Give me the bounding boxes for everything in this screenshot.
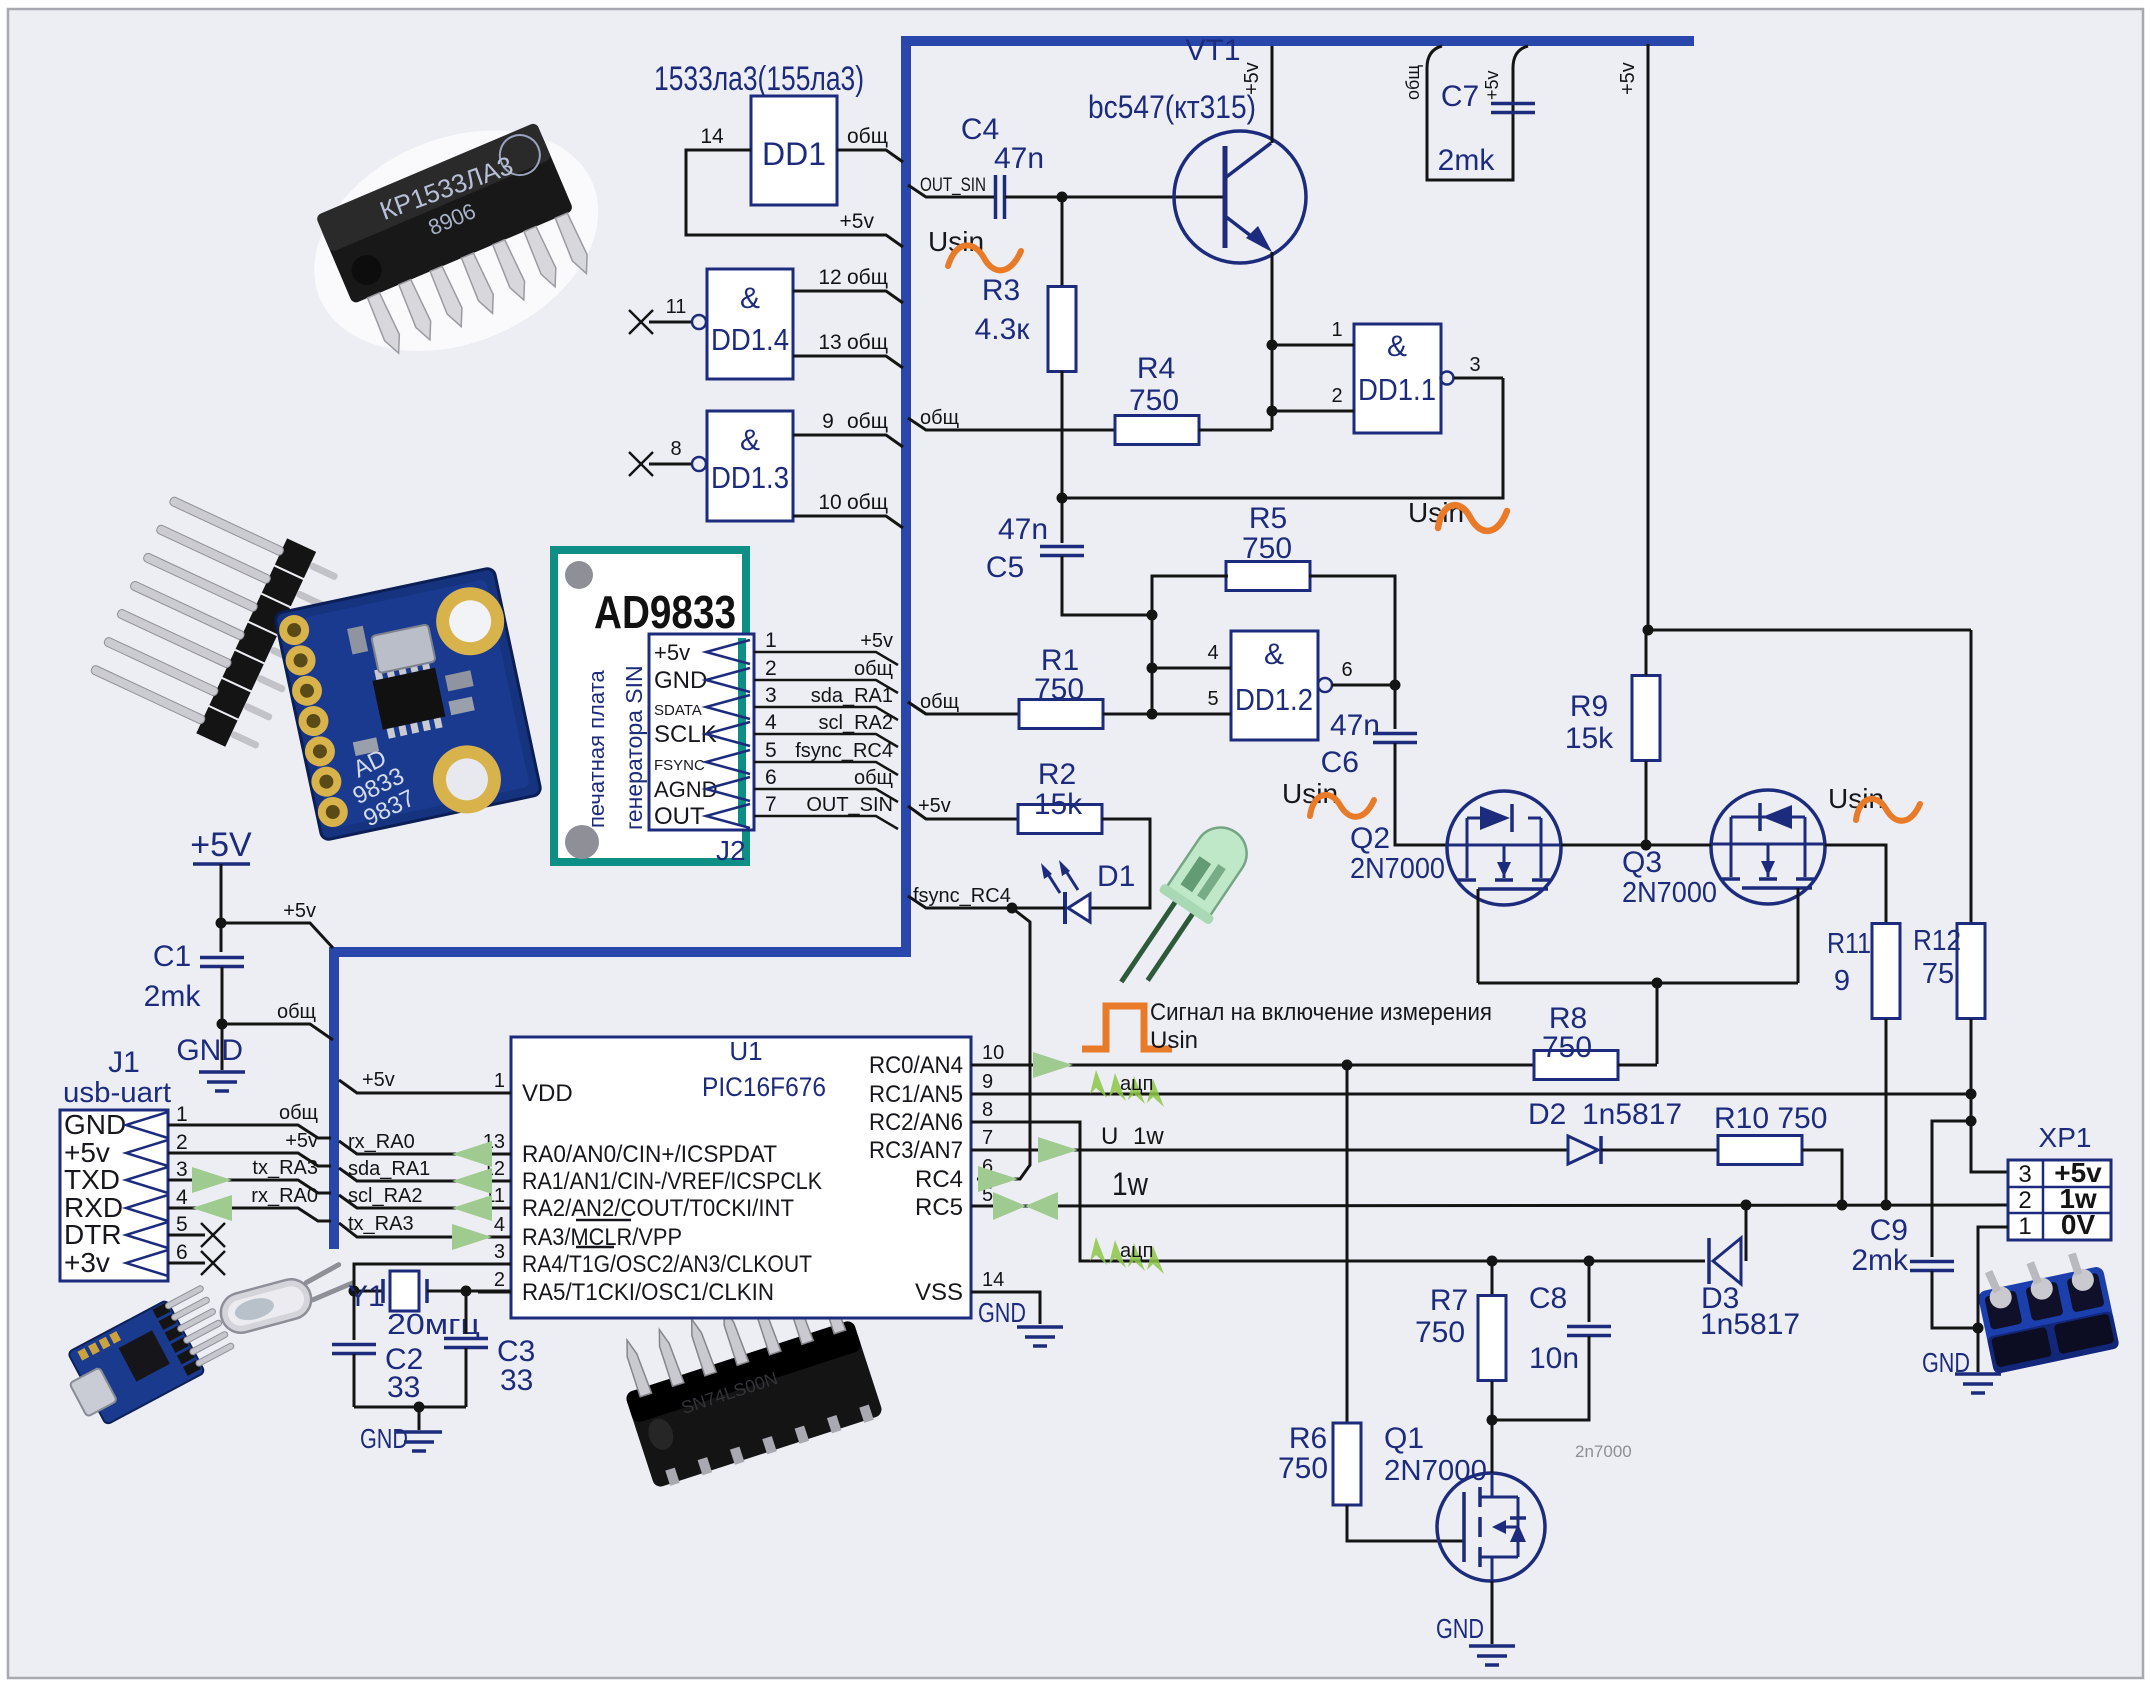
- svg-text:D2: D2: [1528, 1098, 1566, 1131]
- photo screw terminal block: [1973, 1247, 2120, 1374]
- wire R6 to Q1 gate: [1347, 1505, 1464, 1541]
- svg-text:3: 3: [1469, 354, 1480, 376]
- svg-text:FSYNC: FSYNC: [654, 757, 705, 774]
- svg-text:3: 3: [2018, 1161, 2031, 1188]
- logic IC DD1: [751, 96, 837, 205]
- LED D1: [1063, 892, 1067, 924]
- AD9833 board outline: [554, 550, 746, 862]
- resistor R8: [1534, 1051, 1618, 1080]
- svg-text:9: 9: [1834, 965, 1850, 997]
- svg-text:R4: R4: [1137, 352, 1175, 385]
- U1 pin 12 RA1: [478, 1180, 511, 1183]
- wire R12 down: [1970, 1019, 1973, 1172]
- resistor R11: [1872, 924, 1900, 1019]
- svg-text:1: 1: [494, 1070, 505, 1092]
- wire DD1.4 pin13: [793, 356, 903, 368]
- svg-text:D1: D1: [1097, 860, 1135, 893]
- svg-text:2: 2: [765, 657, 777, 680]
- svg-text:GND: GND: [360, 1423, 408, 1454]
- svg-text:75: 75: [1922, 958, 1954, 990]
- svg-text:Usin: Usin: [1150, 1027, 1198, 1054]
- svg-text:2: 2: [1331, 385, 1342, 407]
- svg-text:C6: C6: [1321, 746, 1359, 779]
- svg-text:1n5817: 1n5817: [1582, 1098, 1682, 1131]
- svg-text:PIC16F676: PIC16F676: [702, 1072, 826, 1102]
- wire DD1.1 pin3 output: [1441, 372, 1454, 385]
- capacitor C2: [353, 1291, 356, 1340]
- svg-text:3: 3: [494, 1241, 505, 1263]
- svg-text:13: 13: [818, 331, 841, 354]
- svg-text:AD9833: AD9833: [594, 586, 736, 638]
- resistor R1: [908, 702, 926, 714]
- capacitor C8: [1588, 1261, 1591, 1322]
- svg-text:5: 5: [176, 1213, 188, 1236]
- wire +5v to VDD: [339, 1080, 511, 1093]
- svg-text:7: 7: [982, 1127, 993, 1149]
- diode D2: [1568, 1136, 1598, 1164]
- svg-text:общ: общ: [847, 491, 888, 514]
- wire J1 pin1 obsh: [168, 1125, 331, 1138]
- wire Q3 to R11: [1825, 845, 1886, 924]
- svg-text:общ: общ: [920, 691, 959, 713]
- svg-text:1: 1: [1331, 319, 1342, 341]
- svg-text:+5v: +5v: [362, 1069, 395, 1091]
- svg-text:5: 5: [765, 739, 777, 762]
- svg-text:750: 750: [1415, 1316, 1465, 1349]
- svg-text:общ: общ: [847, 410, 888, 433]
- wire J1 pin6 nc: [168, 1262, 205, 1265]
- svg-text:VSS: VSS: [915, 1279, 963, 1306]
- svg-text:rx_RA0: rx_RA0: [348, 1131, 415, 1153]
- svg-text:RC0/AN4: RC0/AN4: [869, 1052, 963, 1079]
- wire VT1 collector +5v: [1271, 46, 1274, 143]
- photo HC-49 crystal: [215, 1259, 360, 1337]
- svg-text:R7: R7: [1430, 1284, 1468, 1317]
- svg-text:OUT: OUT: [654, 803, 705, 830]
- svg-text:1w: 1w: [1112, 1166, 1149, 1202]
- svg-text:XP1: XP1: [2039, 1122, 2092, 1153]
- svg-text:GND: GND: [1436, 1613, 1484, 1644]
- svg-text:R2: R2: [1038, 758, 1076, 791]
- wire C4 to VT1 base: [1005, 196, 1223, 199]
- wire RC2 pin8 net: [971, 1122, 1705, 1261]
- capacitor C4: [994, 175, 998, 219]
- wire obsh to R4: [908, 418, 1116, 430]
- transistor Q2 2N7000: [1447, 791, 1561, 905]
- wire +5v rail right: [1647, 44, 1650, 630]
- svg-text:14: 14: [982, 1269, 1004, 1291]
- svg-text:4: 4: [494, 1214, 505, 1236]
- svg-text:R3: R3: [982, 274, 1020, 307]
- photo AD9833 module: [274, 567, 542, 844]
- svg-text:общ: общ: [847, 331, 888, 354]
- wire DD1.2 pin4: [1152, 667, 1231, 670]
- svg-text:33: 33: [500, 1364, 533, 1397]
- svg-text:SDATA: SDATA: [654, 702, 702, 719]
- svg-text:VDD: VDD: [522, 1080, 573, 1107]
- wire Usin feedback: [1062, 378, 1503, 498]
- no-connect pin 11: [629, 310, 653, 334]
- svg-text:R11: R11: [1827, 928, 1871, 960]
- logic gate DD1.1: [1354, 324, 1441, 433]
- photo DIP chip bottom view: [609, 1272, 884, 1491]
- svg-text:R6: R6: [1289, 1422, 1327, 1455]
- wire C6 to Q2: [1395, 743, 1448, 845]
- svg-text:OUT_SIN: OUT_SIN: [920, 175, 986, 196]
- svg-text:C9: C9: [1870, 1214, 1908, 1247]
- svg-text:J2: J2: [716, 835, 746, 866]
- capacitor C5: [1040, 545, 1084, 549]
- svg-text:2mk: 2mk: [1851, 1244, 1909, 1277]
- svg-text:+5v: +5v: [1482, 70, 1502, 100]
- svg-text:47n: 47n: [1330, 709, 1380, 742]
- resistor R7: [1491, 1261, 1494, 1296]
- wire RC4 pin6 fsync: [978, 1166, 1018, 1192]
- pulse signal annotation: [1082, 1006, 1172, 1049]
- svg-text:+5V: +5V: [190, 826, 252, 864]
- svg-text:+5v: +5v: [860, 630, 893, 652]
- svg-text:8: 8: [982, 1099, 993, 1121]
- wire gate tie: [1478, 982, 1798, 985]
- transistor Q3 2N7000: [1711, 790, 1825, 904]
- svg-text:общ: общ: [847, 266, 888, 289]
- svg-text:750: 750: [1129, 384, 1179, 417]
- svg-text:0V: 0V: [2061, 1209, 2096, 1240]
- svg-text:DD1.1: DD1.1: [1358, 372, 1436, 407]
- svg-text:R9: R9: [1570, 690, 1608, 723]
- photo green LED: [1104, 815, 1261, 1006]
- wire DD1.1 pin1: [1272, 344, 1354, 347]
- svg-text:R10 750: R10 750: [1714, 1102, 1827, 1135]
- svg-text:GND: GND: [978, 1297, 1026, 1328]
- svg-text:47n: 47n: [998, 513, 1048, 546]
- svg-text:9: 9: [982, 1071, 993, 1093]
- svg-text:+5v: +5v: [918, 795, 951, 817]
- svg-text:15k: 15k: [1565, 722, 1614, 755]
- wire scl_RA2: [339, 1195, 478, 1208]
- svg-text:GND: GND: [176, 1034, 243, 1067]
- resistor R12: [1957, 924, 1985, 1019]
- svg-text:печатная плата: печатная плата: [584, 670, 609, 828]
- svg-text:+5v: +5v: [283, 900, 316, 922]
- resistor R9: [1632, 676, 1660, 761]
- svg-text:общ: общ: [847, 125, 888, 148]
- wire DD1 pin14: [686, 150, 903, 247]
- svg-text:+5v: +5v: [1617, 62, 1639, 95]
- svg-text:общ: общ: [854, 767, 893, 789]
- svg-text:DD1.2: DD1.2: [1235, 682, 1313, 717]
- U1 pin 11 RA2: [478, 1207, 511, 1210]
- svg-text:14: 14: [700, 125, 724, 148]
- logic gate DD1.2: [1231, 631, 1318, 740]
- microcontroller U1 PIC16F676: [511, 1037, 971, 1318]
- svg-text:R5: R5: [1249, 502, 1287, 535]
- svg-text:12: 12: [818, 266, 841, 289]
- svg-text:RC2/AN6: RC2/AN6: [869, 1109, 963, 1136]
- svg-text:7: 7: [765, 793, 777, 816]
- wire DD1.3 pin9: [793, 435, 903, 447]
- gnd crystal: [354, 1406, 466, 1409]
- svg-text:scl_RA2: scl_RA2: [819, 712, 893, 734]
- wire +5v to bus top: [221, 923, 333, 948]
- capacitor C9: [1932, 1121, 1971, 1257]
- svg-text:C5: C5: [986, 551, 1024, 584]
- wire RC3 pin7 U1w net: [971, 1149, 1568, 1152]
- wire rx_RA0: [339, 1141, 478, 1154]
- photo usb-uart module: [56, 1282, 238, 1431]
- svg-text:общ: общ: [920, 407, 959, 429]
- svg-text:10n: 10n: [1529, 1342, 1579, 1375]
- wire OUT_SIN: [908, 185, 995, 197]
- svg-text:+5v: +5v: [285, 1130, 318, 1152]
- svg-text:+5v: +5v: [654, 640, 690, 665]
- svg-text:RA5/T1CKI/OSC1/CLKIN: RA5/T1CKI/OSC1/CLKIN: [522, 1279, 774, 1306]
- wire to R12: [1970, 630, 1973, 926]
- svg-text:C1: C1: [153, 940, 191, 973]
- wire DD1 out obsh: [837, 150, 903, 162]
- U1 pin 4 RA3: [478, 1236, 511, 1239]
- wire J1 pin2 +5v: [168, 1153, 331, 1166]
- svg-text:750: 750: [1034, 673, 1084, 706]
- svg-text:bc547(кт315): bc547(кт315): [1088, 89, 1256, 125]
- svg-text:1: 1: [2018, 1213, 2031, 1240]
- svg-text:750: 750: [1242, 532, 1292, 565]
- svg-text:6: 6: [765, 766, 777, 789]
- wire R2 to D1: [1090, 819, 1150, 908]
- svg-text:4: 4: [176, 1186, 188, 1209]
- svg-text:15k: 15k: [1034, 788, 1083, 821]
- svg-text:общ: общ: [279, 1102, 318, 1124]
- svg-text:TXD: TXD: [64, 1164, 120, 1195]
- crystal Y1: [354, 1290, 383, 1293]
- svg-text:RA4/T1G/OSC2/AN3/CLKOUT: RA4/T1G/OSC2/AN3/CLKOUT: [522, 1251, 812, 1278]
- capacitor C7 branch: [1427, 46, 1513, 180]
- wire to XP1 pin3: [1971, 1121, 2008, 1172]
- svg-text:RA2/AN2/COUT/T0CKI/INT: RA2/AN2/COUT/T0CKI/INT: [522, 1195, 794, 1222]
- net label +5v to R2: [908, 806, 1018, 819]
- green arrow pin12: [452, 1168, 492, 1194]
- svg-text:2: 2: [2018, 1187, 2031, 1214]
- svg-text:4.3к: 4.3к: [975, 313, 1031, 346]
- svg-text:3: 3: [765, 684, 777, 707]
- svg-text:2mk: 2mk: [144, 980, 202, 1013]
- svg-text:RA1/AN1/CIN-/VREF/ICSPCLK: RA1/AN1/CIN-/VREF/ICSPCLK: [522, 1168, 822, 1195]
- svg-text:1w: 1w: [1133, 1123, 1164, 1150]
- resistor R2: [1018, 805, 1102, 834]
- svg-text:DTR: DTR: [64, 1219, 122, 1250]
- wire J1 pin3 TXD: [168, 1180, 331, 1193]
- svg-text:5: 5: [1207, 688, 1218, 710]
- svg-text:RA0/AN0/CIN+/ICSPDAT: RA0/AN0/CIN+/ICSPDAT: [522, 1141, 777, 1168]
- svg-text:2N7000: 2N7000: [1350, 853, 1445, 885]
- wire Q1 source to GND: [1491, 1581, 1494, 1644]
- svg-text:C8: C8: [1529, 1282, 1567, 1315]
- wire J1 pin4 RXD: [168, 1208, 331, 1221]
- svg-text:+5v: +5v: [840, 210, 875, 233]
- svg-text:&: &: [740, 282, 760, 315]
- U1 pin 3 RA4: [478, 1263, 511, 1266]
- svg-text:ацп: ацп: [1120, 1240, 1153, 1262]
- svg-text:750: 750: [1278, 1452, 1328, 1485]
- svg-text:R12: R12: [1913, 925, 1961, 957]
- svg-text:C7: C7: [1441, 80, 1479, 113]
- svg-text:usb-uart: usb-uart: [63, 1077, 171, 1109]
- svg-text:sda_RA1: sda_RA1: [811, 685, 893, 707]
- svg-text:sda_RA1: sda_RA1: [348, 1158, 430, 1180]
- svg-text:9: 9: [822, 410, 834, 433]
- wire tx_RA3: [339, 1223, 478, 1237]
- svg-text:U: U: [1101, 1123, 1118, 1150]
- svg-text:RC1/AN5: RC1/AN5: [869, 1081, 963, 1108]
- resistor R10: [1718, 1136, 1802, 1165]
- resistor R6: [1346, 1065, 1349, 1423]
- svg-text:fsync_RC4: fsync_RC4: [795, 740, 893, 762]
- svg-text:4: 4: [765, 711, 777, 734]
- svg-text:общ: общ: [854, 658, 893, 680]
- svg-text:tx_RA3: tx_RA3: [348, 1213, 414, 1235]
- svg-text:47n: 47n: [994, 142, 1044, 175]
- svg-text:6: 6: [1341, 659, 1352, 681]
- capacitor C3: [465, 1291, 468, 1334]
- U1 pin 13 RA0: [478, 1153, 511, 1156]
- svg-text:J1: J1: [108, 1046, 140, 1079]
- wire VT1 emitter: [1271, 252, 1274, 430]
- svg-text:U1: U1: [729, 1036, 762, 1066]
- svg-text:RC4: RC4: [915, 1166, 963, 1193]
- net label obsh to R1: [908, 702, 1019, 714]
- svg-text:scl_RA2: scl_RA2: [348, 1185, 422, 1207]
- svg-text:RC5: RC5: [915, 1194, 963, 1221]
- svg-text:1n5817: 1n5817: [1700, 1308, 1800, 1341]
- svg-text:OUT_SIN: OUT_SIN: [806, 794, 893, 816]
- svg-text:4: 4: [1207, 642, 1218, 664]
- capacitor C6: [1394, 685, 1397, 729]
- photo KR1533LA3 DIP chip: [280, 89, 632, 392]
- svg-text:+3v: +3v: [64, 1247, 110, 1278]
- wire obsh from C1: [222, 1024, 333, 1040]
- logic gate DD1.3: [707, 411, 793, 521]
- U1 pin 2 RA5: [478, 1291, 511, 1294]
- svg-text:33: 33: [387, 1371, 420, 1404]
- svg-text:2mk: 2mk: [1438, 144, 1496, 177]
- wire fsync down to RC4: [977, 908, 1030, 1179]
- wire fsync_RC4: [908, 896, 1065, 908]
- svg-text:2: 2: [176, 1131, 188, 1154]
- wire R5 right: [1309, 576, 1395, 685]
- svg-text:fsync_RC4: fsync_RC4: [913, 885, 1011, 907]
- wire RA4 to crystal: [354, 1264, 478, 1291]
- svg-text:tx_RA3: tx_RA3: [252, 1157, 318, 1179]
- svg-text:2N7000: 2N7000: [1384, 1455, 1487, 1487]
- wire XP1 pin1 to GND: [1978, 1227, 2008, 1372]
- resistor R5: [1226, 562, 1310, 591]
- svg-text:10: 10: [818, 491, 841, 514]
- svg-text:общ: общ: [1403, 65, 1423, 100]
- wire DD1.2 pin5: [1152, 713, 1231, 716]
- svg-text:VT1: VT1: [1185, 34, 1240, 67]
- wire R3 to node: [1061, 371, 1064, 543]
- svg-text:GND: GND: [64, 1109, 126, 1140]
- svg-text:генератора SIN: генератора SIN: [621, 665, 647, 830]
- green arrow pin11: [452, 1195, 492, 1221]
- wire DD1.2 pin6 output: [1318, 678, 1332, 692]
- wire sda_RA1: [339, 1168, 478, 1181]
- svg-text:750: 750: [1542, 1031, 1592, 1064]
- svg-text:1: 1: [176, 1103, 188, 1126]
- svg-text:10: 10: [982, 1042, 1004, 1064]
- svg-text:2: 2: [494, 1269, 505, 1291]
- no-connect pin 8: [629, 452, 653, 476]
- svg-text:Q1: Q1: [1384, 1422, 1424, 1455]
- svg-text:2N7000: 2N7000: [1622, 877, 1717, 909]
- svg-text:DD1.3: DD1.3: [711, 460, 789, 495]
- wire Q2-Q3 drain link: [1561, 844, 1711, 847]
- svg-text:1533ла3(155ла3): 1533ла3(155ла3): [654, 60, 864, 98]
- svg-text:DD1.4: DD1.4: [711, 322, 789, 357]
- svg-text:8: 8: [670, 438, 681, 460]
- svg-text:DD1: DD1: [762, 136, 826, 172]
- diode D3: [1745, 1205, 1748, 1261]
- capacitor C1: [200, 956, 244, 960]
- U1 pin 1 VDD: [478, 1092, 511, 1095]
- green arrow pin13: [452, 1141, 492, 1167]
- svg-text:11: 11: [666, 296, 687, 318]
- wire RC5 pin5 1w net: [971, 1205, 2008, 1206]
- svg-text:6: 6: [176, 1241, 188, 1264]
- svg-text:1: 1: [765, 629, 777, 652]
- wire DD1.4 pin12: [793, 291, 903, 303]
- wire J1 pin5 DTR nc: [168, 1234, 205, 1237]
- green arrow pin4: [452, 1224, 492, 1250]
- photo pin header strip: [86, 487, 344, 760]
- svg-text:&: &: [740, 424, 760, 457]
- svg-text:Q2: Q2: [1350, 822, 1390, 855]
- svg-text:2n7000: 2n7000: [1575, 1442, 1632, 1461]
- wire RC0 pin10 net: [971, 1064, 1535, 1067]
- svg-text:ацп: ацп: [1120, 1073, 1153, 1095]
- wire C5 bottom: [1062, 556, 1152, 615]
- logic gate DD1.4: [707, 269, 793, 379]
- wire R5 left: [1152, 576, 1228, 714]
- svg-text:GND: GND: [654, 667, 707, 694]
- svg-text:Q3: Q3: [1622, 846, 1662, 879]
- svg-text:&: &: [1264, 638, 1284, 671]
- wire RC1 pin9 acp net: [971, 1093, 1971, 1096]
- resistor R4: [1115, 416, 1199, 445]
- wire DD1.1 pin2: [1272, 410, 1354, 413]
- svg-text:общ: общ: [277, 1001, 316, 1023]
- resistor R3: [1061, 197, 1064, 290]
- wire DD1.3 pin10: [793, 516, 903, 528]
- svg-text:RC3/AN7: RC3/AN7: [869, 1137, 963, 1164]
- blue bus border line: [334, 41, 1694, 1249]
- svg-text:Сигнал на включение измерения: Сигнал на включение измерения: [1150, 999, 1492, 1026]
- svg-text:rx_RA0: rx_RA0: [251, 1185, 318, 1207]
- U1 GND: [971, 1292, 1040, 1324]
- connector J2 box: [649, 634, 754, 830]
- svg-text:3: 3: [176, 1158, 188, 1181]
- svg-text:&: &: [1387, 330, 1407, 363]
- svg-text:+5v: +5v: [1241, 62, 1263, 95]
